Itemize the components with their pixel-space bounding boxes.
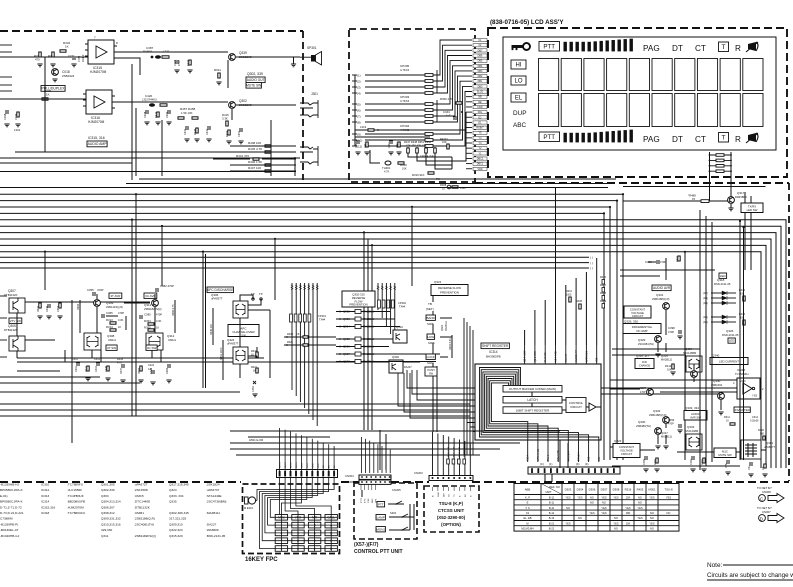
microphone amp box with hatch (741, 440, 761, 459)
inverter IC box with triangle (733, 378, 764, 399)
svg-text:SLCD: SLCD (477, 91, 484, 94)
svg-text:(C): (C) (540, 462, 544, 466)
label 3T AVR boxed (109, 293, 122, 298)
svg-text:APC DISCHARGE: APC DISCHARGE (207, 288, 233, 292)
svg-text:M301: M301 (649, 488, 656, 492)
svg-text:C484: C484 (166, 367, 169, 374)
svg-text:DB0: DB0 (478, 85, 483, 88)
svg-text:R316: R316 (625, 488, 632, 492)
LED block top label LED boxed (719, 273, 727, 278)
svg-text::2SB1188(Q,R): :2SB1188(Q,R) (134, 517, 155, 521)
svg-text:D-T1,Z-71,D-72: D-T1,Z-71,D-72 (0, 505, 22, 509)
svg-text:DUP: DUP (513, 110, 527, 117)
svg-text:C76: C76 (725, 463, 728, 468)
svg-text::uPA672T: :uPA672T (134, 483, 148, 487)
svg-text:B-11: B-11 (549, 495, 555, 499)
svg-text:SW: SW (241, 333, 246, 337)
svg-text::2SC4738(BM): :2SC4738(BM) (206, 500, 226, 504)
jack J302 bottom (300, 146, 318, 166)
wire main unit dashed border below LCD (475, 182, 789, 184)
svg-text:2SB1188(Q,R): 2SB1188(Q,R) (652, 297, 670, 301)
wire 3C cluster connections (152, 294, 161, 362)
svg-text:HJM2070M: HJM2070M (88, 120, 105, 124)
svg-text:R310 91K: R310 91K (412, 173, 425, 177)
svg-text:CTCSS UNIT: CTCSS UNIT (438, 508, 465, 513)
svg-text:K, P: K, P (525, 495, 530, 499)
button LAMP boxed (376, 515, 385, 520)
label PULL/DUPLEX (41, 86, 65, 92)
thermistor TH301 4.7K (385, 161, 391, 165)
svg-text:TSU-8 (K,P): TSU-8 (K,P) (439, 501, 464, 506)
svg-text:LED CURRENT: LED CURRENT (719, 359, 739, 363)
svg-text:Q308,312: Q308,312 (101, 511, 115, 515)
svg-text:RSD-2131-05: RSD-2131-05 (722, 333, 739, 337)
svg-text:18K: 18K (626, 511, 631, 515)
svg-text:C408: C408 (143, 111, 147, 118)
svg-text:-B1339PB-P(: -B1339PB-P( (0, 522, 19, 526)
svg-text:YES: YES (565, 521, 570, 525)
svg-text:SHIFT REGISTER: SHIFT REGISTER (482, 344, 509, 348)
resistor network R347 R348 R351 R352 47K (404, 140, 436, 153)
wire lower network horizontals (355, 130, 466, 137)
svg-text:15K: 15K (626, 521, 631, 525)
transistor pack Q308 UMH1 (84, 333, 101, 350)
svg-text:IC312: IC312 (41, 488, 50, 492)
svg-text:CIRCUIT: CIRCUIT (632, 314, 644, 318)
svg-text:-B1335HB-HJ: -B1335HB-HJ (0, 483, 20, 487)
svg-text::UMC5: :UMC5 (134, 494, 144, 498)
svg-text:YES: YES (613, 521, 618, 525)
svg-text:D470: D470 (120, 367, 123, 374)
svg-text:-B0130EL-AT: -B0130EL-AT (0, 528, 19, 532)
svg-text:TSU-8: TSU-8 (664, 488, 673, 492)
svg-text:LED: LED (729, 339, 734, 343)
wire network step wiring (408, 153, 452, 169)
label 16BIT SHIFT REGISTER boxed (503, 407, 562, 414)
svg-text:4.7KX4: 4.7KX4 (400, 99, 410, 103)
svg-text:AUDIO OUT: AUDIO OUT (247, 78, 265, 82)
svg-text::WA8609: :WA8609 (206, 528, 219, 532)
svg-text:C382 470P: C382 470P (160, 284, 174, 288)
svg-text:R408: R408 (576, 300, 583, 303)
label CONTROL CIRCUIT boxed (566, 398, 586, 413)
svg-text:D/D: D/D (642, 360, 647, 364)
svg-text:( ): ( ) (590, 266, 593, 270)
wire bridge line below dashed border (623, 186, 766, 188)
svg-text:PREVENTION: PREVENTION (440, 291, 459, 295)
svg-text:Q309,331,332: Q309,331,332 (101, 517, 121, 521)
wire staircase from rows to LCD pads (473, 39, 487, 171)
svg-text::2SC4081(TH): :2SC4081(TH) (134, 522, 154, 526)
svg-text:OUTPUT BUFFER COPER (MAIN): OUTPUT BUFFER COPER (MAIN) (509, 387, 556, 391)
svg-text:D-73,D-21,D-221: D-73,D-21,D-221 (0, 511, 24, 515)
wire PTT unit internal vertical labels (361, 484, 377, 503)
svg-text:C405: C405 (643, 459, 646, 465)
wire main unit dashed border bottom edge (0, 481, 789, 483)
svg-text:uPA837T: uPA837T (211, 297, 223, 301)
svg-text:Q302,339: Q302,339 (101, 488, 115, 492)
svg-text:BAND: BAND (427, 316, 436, 320)
svg-text::2SK1588: :2SK1588 (134, 488, 148, 492)
wire IC316 output to Q302 and jack J301 (112, 102, 296, 120)
svg-text:B-21: B-21 (549, 521, 555, 525)
svg-text:T, S: T, S (525, 506, 530, 510)
wire long horizontals below audio section (0, 179, 616, 188)
wire TB column connections (433, 296, 452, 367)
svg-text:YES: YES (601, 511, 606, 515)
svg-text::HJM2070M: :HJM2070M (67, 505, 84, 509)
svg-text:DB7: DB7 (478, 49, 483, 52)
svg-text:Q302, 339: Q302, 339 (247, 72, 263, 76)
svg-text:R: R (735, 44, 741, 53)
svg-text:NO: NO (650, 527, 654, 531)
transistor pack Q306 (233, 301, 248, 318)
svg-text:LOW: LOW (427, 335, 434, 339)
svg-text:-B1340HB-GJ: -B1340HB-GJ (0, 534, 20, 538)
connector CN304 pad rows (359, 475, 391, 484)
wire bottom area horizontals feeding connectors (230, 431, 560, 455)
svg-text:4.7KX4: 4.7KX4 (400, 68, 410, 72)
svg-text:S11: S11 (598, 456, 601, 461)
svg-text:C412: C412 (94, 358, 101, 361)
wire right column grounds (655, 354, 660, 357)
svg-text:B-22: B-22 (549, 527, 555, 531)
svg-text:DUP.3: DUP.3 (81, 54, 85, 62)
svg-text::TC4PB3UF: :TC4PB3UF (67, 494, 84, 498)
svg-text:Q335: Q335 (169, 500, 177, 504)
LCD signal meter bars top (564, 39, 633, 52)
LCD 7-segment digit cells row 1 (539, 59, 764, 91)
svg-text:Q302-306,315: Q302-306,315 (169, 511, 189, 515)
svg-text:Q309,310: Q309,310 (169, 522, 183, 526)
svg-text:C786: C786 (77, 55, 81, 62)
svg-text:NO: NO (650, 516, 654, 520)
svg-text:B-11: B-11 (549, 501, 555, 505)
svg-text:2SB480(TH): 2SB480(TH) (636, 424, 651, 428)
svg-text:CN30b: CN30b (345, 480, 354, 484)
svg-text:DB3: DB3 (478, 70, 483, 73)
wire main unit dashed border top-left segment (0, 30, 303, 32)
svg-text:DBC2: DBC2 (477, 157, 484, 160)
svg-text:PTT: PTT (543, 44, 555, 51)
svg-text:R321: R321 (287, 341, 294, 344)
svg-text:R911: R911 (214, 68, 221, 72)
svg-text:EL: EL (515, 96, 523, 102)
svg-text:PUSH: PUSH (428, 369, 435, 372)
label Q315 317 D/D CHANGE boxed (635, 354, 654, 369)
svg-text:470P: 470P (668, 423, 674, 426)
svg-text:CLOCK 4P: CLOCK 4P (575, 350, 578, 362)
svg-text:M E301: M E301 (244, 506, 253, 510)
svg-text:1K: 1K (118, 325, 121, 329)
svg-text:R360 4.7K: R360 4.7K (440, 97, 453, 101)
transistor Q303b DA227 box (389, 360, 403, 373)
svg-text:(10): (10) (357, 138, 362, 142)
svg-text:Q310,315,316: Q310,315,316 (101, 522, 121, 526)
svg-text:C365: C365 (106, 311, 113, 315)
svg-text:Y55: Y55 (596, 357, 599, 362)
svg-text:(OPTION): (OPTION) (441, 522, 461, 527)
svg-text:1uF: 1uF (446, 114, 451, 118)
svg-text:4.7K: 4.7K (117, 362, 122, 365)
ground under speaker wire (291, 64, 296, 67)
keypad buttons grid (275, 515, 337, 552)
svg-text:Q329: Q329 (638, 338, 646, 342)
svg-text:YES: YES (666, 495, 671, 499)
svg-text:E-01): E-01) (0, 494, 8, 498)
svg-text:DB5: DB5 (478, 60, 483, 63)
svg-text:HI: HI (516, 63, 522, 69)
svg-text:REF. NO: REF. NO (549, 485, 560, 489)
button MON1 boxed (376, 527, 385, 532)
microphone M E301 (244, 497, 256, 510)
resistor pack CP303 resistors (425, 100, 437, 123)
svg-text:RGB/T: RGB/T (476, 127, 484, 130)
svg-text:NO: NO (614, 516, 618, 520)
svg-text:IC318: IC318 (737, 368, 745, 372)
svg-text:BP0580CJ/PA-K: BP0580CJ/PA-K (0, 500, 24, 504)
svg-text:R436: R436 (600, 276, 607, 279)
svg-text:1005: 1005 (566, 294, 572, 297)
label 2TV SW (9, 318, 22, 323)
svg-text:AUDIO AVR: AUDIO AVR (653, 286, 671, 290)
svg-text:( ): ( ) (590, 255, 593, 259)
wire audio section long verticals (45, 57, 271, 180)
svg-text:R347 R348 R351 R352: R347 R348 R351 R352 (404, 140, 432, 144)
svg-text:1.5K 10K: 1.5K 10K (181, 111, 193, 115)
label INVERTER boxed (734, 407, 751, 412)
transistor Q329 2SC4081 (655, 336, 662, 343)
capacitor C453 bottom (253, 381, 256, 384)
label OUTPUT BUFFER COPER MAIN boxed (503, 386, 562, 393)
svg-text::2SB1182FS(Q): :2SB1182FS(Q) (134, 534, 156, 538)
svg-text:B-12: B-12 (549, 511, 555, 515)
svg-text::STA1449E: :STA1449E (206, 494, 222, 498)
svg-text:R438: R438 (600, 292, 607, 295)
svg-text:YES: YES (649, 521, 654, 525)
svg-text:2TV SW: 2TV SW (10, 319, 21, 323)
svg-text:CN303: CN303 (414, 471, 423, 475)
svg-text:C344: C344 (443, 110, 450, 114)
IC314 bottom pins with vertical labels (527, 440, 601, 462)
svg-text:INVERTER: INVERTER (735, 408, 751, 412)
svg-text:(7): (7) (357, 114, 361, 118)
svg-text:LO: LO (514, 79, 522, 85)
wire PTT unit wiring (362, 490, 414, 530)
svg-text:IC313: IC313 (41, 494, 50, 498)
svg-text:PTT: PTT (543, 134, 555, 141)
svg-text:Q329, 330: Q329, 330 (624, 320, 638, 324)
svg-text:Q332: Q332 (653, 409, 661, 413)
svg-text:M: M (526, 521, 528, 525)
wire main unit dashed border right edge (788, 183, 790, 481)
label LOW boxed with switch Q306 (427, 334, 435, 339)
svg-text:Q340: Q340 (712, 354, 720, 358)
label 3C SW boxed (146, 345, 157, 350)
svg-text:CP301: CP301 (318, 314, 326, 318)
wire connector section dashed box (349, 29, 475, 182)
svg-text:Q304,313,314: Q304,313,314 (101, 500, 121, 504)
svg-text:LED SW: LED SW (747, 208, 758, 212)
svg-text:Q330: Q330 (638, 420, 646, 424)
svg-text:IC315,316: IC315,316 (41, 505, 56, 509)
label AUDIO AVR boxed (652, 285, 671, 291)
option configuration table (514, 484, 679, 532)
svg-text:L322 R448.5: L322 R448.5 (142, 98, 157, 102)
jack J301 (300, 92, 318, 118)
svg-text:YES: YES (649, 495, 654, 499)
svg-text:YES: YES (613, 495, 618, 499)
svg-text:TH301: TH301 (382, 166, 391, 170)
LED group 2 diodes (703, 315, 736, 324)
svg-text:CN304: CN304 (345, 474, 354, 478)
label 3T SW boxed (106, 345, 117, 350)
transistor pack Q312 UMH1 (146, 333, 163, 350)
svg-text:TC7S04FH: TC7S04FH (735, 372, 749, 376)
TSU-8 pin labels vertical (433, 487, 473, 497)
svg-text:2SB1443(Q,R): 2SB1443(Q,R) (106, 305, 123, 309)
svg-text:DA227: DA227 (404, 366, 412, 369)
resistor pack CP302 TX#4 label (378, 300, 407, 308)
CONTROL PTT UNIT dashed enclosure (354, 483, 417, 539)
wire vertical pair through right column (740, 221, 744, 460)
wire left edge stubs with pin numbers (0, 296, 7, 383)
svg-text:STA1488M: STA1488M (683, 351, 697, 355)
svg-text:C9L: C9L (748, 465, 751, 470)
svg-text:1K: 1K (156, 326, 159, 330)
svg-text:(X57-)(F/7): (X57-)(F/7) (354, 542, 379, 548)
svg-text:Q2 8-STO: Q2 8-STO (534, 351, 537, 362)
label Q302-310 REVERSE FLOW PREVENTION boxed (342, 291, 375, 307)
svg-text:47K 47K 47K 47K: 47K 47K 47K 47K (406, 144, 427, 148)
svg-text:DB4: DB4 (478, 65, 483, 68)
label LATCH boxed (503, 397, 562, 404)
resistor pack CP301 boxes (290, 314, 327, 322)
transistor Q339 audio out (229, 54, 236, 61)
svg-text:C453: C453 (252, 386, 255, 392)
svg-text:470P: 470P (660, 260, 666, 264)
svg-text:STA1448M: STA1448M (685, 429, 699, 433)
switch S303 symbols (390, 501, 410, 531)
svg-text:3T SW: 3T SW (107, 346, 116, 350)
svg-text:(1): (1) (357, 73, 361, 77)
svg-text:Q331: Q331 (656, 293, 664, 297)
wire bus vertical drops left-middle (45, 194, 412, 443)
svg-text:(838-0716-05) LCD ASS'Y: (838-0716-05) LCD ASS'Y (490, 19, 564, 26)
svg-text:CN307: CN307 (762, 510, 771, 514)
svg-text:MA2B111: MA2B111 (661, 358, 673, 362)
svg-text:16BIT SHIFT REGISTER: 16BIT SHIFT REGISTER (516, 409, 550, 413)
svg-text:BP0580CJ/PA-K: BP0580CJ/PA-K (0, 488, 24, 492)
svg-text:Q321: Q321 (434, 280, 442, 284)
svg-text:Q321: Q321 (441, 324, 444, 331)
keypad connector hatched (277, 470, 338, 478)
svg-text:MON1: MON1 (376, 527, 385, 531)
svg-text:C420: C420 (145, 94, 153, 98)
svg-text:R446 1.5K: R446 1.5K (248, 160, 262, 164)
svg-text:Q311: Q311 (144, 303, 151, 307)
svg-text:DB6: DB6 (478, 54, 483, 57)
svg-text:D306: D306 (589, 488, 596, 492)
transistor Q311 circle (152, 300, 159, 307)
svg-text:DC AMP: DC AMP (636, 329, 647, 333)
svg-text:R439: R439 (600, 300, 607, 303)
svg-text:Q301: Q301 (766, 441, 773, 445)
svg-text:T: T (721, 135, 725, 142)
label BAND boxed with switch Q305 (426, 315, 436, 320)
svg-text:470P: 470P (668, 330, 674, 334)
svg-text:YES: YES (577, 495, 582, 499)
svg-text:2SC4081(TH): 2SC4081(TH) (638, 342, 654, 346)
LCD PTT indicator bottom (539, 132, 560, 142)
wire audio bottom rails to jacks (213, 146, 296, 171)
svg-text:( ): ( ) (590, 261, 593, 265)
resistor pack CP304 resistors (425, 133, 433, 148)
wire left edge stubs audio (0, 45, 12, 99)
wire circled pin numbers below IC314 (540, 462, 588, 466)
LCD display outline (503, 37, 776, 150)
svg-text:PTT: PTT (378, 502, 384, 506)
label TX/RX LED SW boxed (741, 203, 763, 213)
wire audio input left rail (0, 57, 88, 99)
wire horizontal bus group (0, 194, 786, 468)
svg-text:Q306,307: Q306,307 (101, 505, 115, 509)
wire keypad fan nested wires (256, 484, 335, 549)
label APC CHANGE-OVER SW boxed (228, 325, 259, 338)
svg-text:Q315,320: Q315,320 (169, 534, 183, 538)
svg-text:S10: S10 (588, 456, 591, 461)
transistor Q327 circle (691, 371, 698, 378)
connector arrow D TO NET B/7 CN307 (757, 506, 784, 523)
svg-text:NO: NO (638, 501, 642, 505)
svg-text:NO: NO (614, 527, 618, 531)
svg-text:PAG: PAG (643, 44, 660, 53)
svg-text:R403: R403 (637, 488, 644, 492)
wire right side verticals to bottom (700, 192, 751, 470)
svg-text:IC310: IC310 (41, 483, 50, 487)
svg-text::MA2B111: :MA2B111 (206, 511, 220, 515)
resistor pack CP305 resistors (425, 70, 437, 94)
wire 3T cluster connections (92, 294, 150, 362)
svg-text:FDD: FDD (478, 106, 483, 109)
svg-text:NE 4-AR2: NE 4-AR2 (555, 351, 558, 362)
svg-text:2SB1604: 2SB1604 (711, 383, 723, 387)
svg-text:C343: C343 (46, 305, 49, 312)
16KEY FPC dashed enclosure (243, 484, 340, 554)
svg-text:SP301: SP301 (307, 46, 317, 50)
svg-text:TX#4: TX#4 (399, 304, 406, 308)
svg-text:DT: DT (672, 135, 683, 144)
svg-text:D304: D304 (577, 488, 584, 492)
connector CN303 pads (429, 476, 473, 481)
svg-text:HJM2070M: HJM2070M (90, 70, 107, 74)
svg-text::JLC1556F: :JLC1556F (67, 488, 82, 492)
svg-text:Note:: Note: (707, 562, 722, 569)
LCD signal meter bars bottom (564, 130, 633, 143)
transistor Q309 circle (94, 300, 101, 307)
svg-text:C398: C398 (668, 326, 675, 330)
svg-text:NB: NB (478, 96, 482, 99)
svg-text:(4): (4) (357, 91, 361, 95)
svg-text:470P: 470P (156, 313, 162, 317)
LCD 7-segment digit cells row 2 (539, 94, 764, 127)
label SHIFT REGISTER boxed (481, 343, 509, 349)
svg-text:1K: 1K (65, 45, 69, 49)
svg-text:10K: 10K (442, 140, 447, 144)
svg-text:CN305: CN305 (392, 488, 401, 492)
svg-text:C362 4.7uF: C362 4.7uF (420, 154, 434, 158)
svg-text:C7388IM: C7388IM (0, 517, 13, 521)
